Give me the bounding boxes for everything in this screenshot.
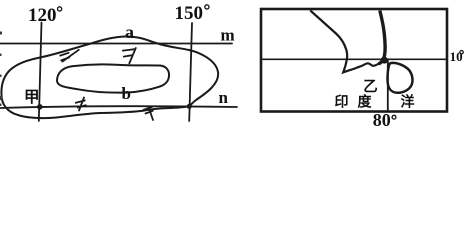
svg-text:洋: 洋 (401, 94, 415, 111)
meridian 120E (39, 23, 42, 122)
meridian 80E (387, 59, 389, 111)
scan specks at left edge (0, 32, 2, 107)
india west coast (310, 11, 379, 73)
svg-text:度: 度 (358, 94, 373, 111)
svg-text:150: 150 (175, 3, 204, 24)
parallel m (0, 43, 232, 45)
wind barb D on outer curve (149, 107, 154, 120)
palk strait blob (381, 57, 389, 64)
parallel n (0, 106, 237, 108)
inner isoline b (57, 64, 169, 92)
svg-text:a: a (125, 22, 134, 42)
wind barb A (129, 48, 136, 63)
meridian 150E (189, 23, 192, 121)
sri lanka (388, 63, 413, 93)
india east coast (bay of bengal) (379, 11, 385, 64)
svg-text:m: m (221, 26, 235, 45)
junction dot at 120 x n (point jia) (37, 104, 43, 110)
svg-text:80: 80 (373, 110, 391, 126)
wind barb C on n (79, 98, 84, 111)
svg-text:乙: 乙 (363, 80, 378, 96)
right map frame (261, 9, 447, 112)
svg-text:120: 120 (28, 5, 57, 26)
wind barb B (63, 50, 79, 62)
svg-text:甲: 甲 (24, 88, 40, 106)
left map (0, 23, 237, 122)
svg-text:印: 印 (335, 94, 349, 111)
svg-text:n: n (219, 88, 229, 107)
frame (261, 9, 447, 112)
svg-text:b: b (122, 84, 131, 103)
outer isoline a (1, 36, 218, 118)
parallel 10N (261, 58, 446, 60)
junction blob at 150 x n (187, 104, 192, 109)
